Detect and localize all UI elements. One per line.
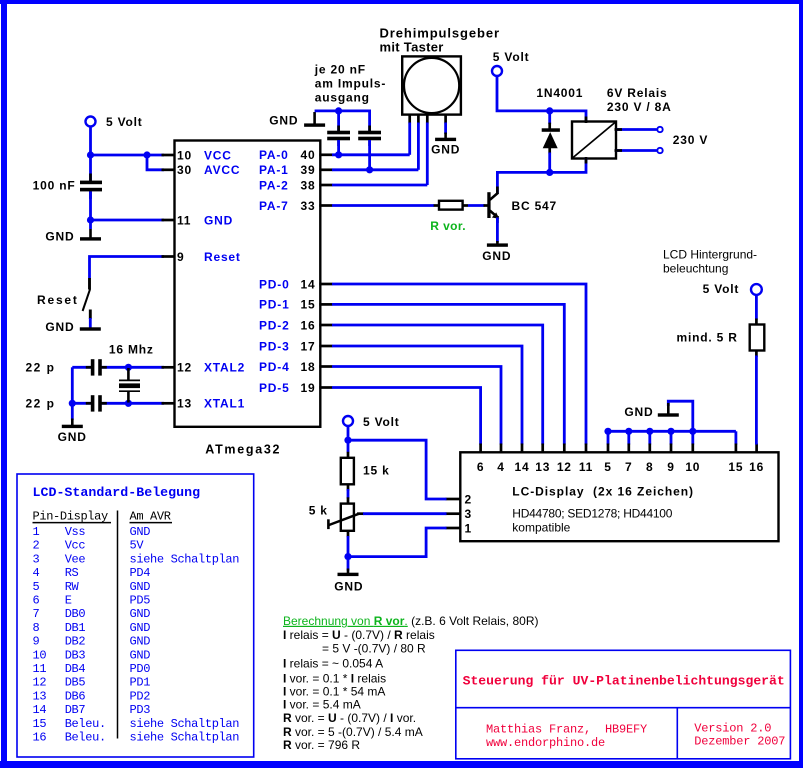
svg-text:10: 10 xyxy=(177,148,192,162)
svg-text:kompatible: kompatible xyxy=(512,521,570,535)
svg-text:12: 12 xyxy=(557,460,572,474)
pin stubs relay K1 xyxy=(586,117,622,164)
label Drehimpulsgeber mit Taster xyxy=(380,25,500,54)
svg-text:beleuchtung: beleuchtung xyxy=(663,262,728,276)
ground below encoder xyxy=(435,133,456,142)
wire relay contact lower xyxy=(616,149,657,152)
wire divider bottom to LCD pin 1 xyxy=(348,528,447,557)
svg-text:38: 38 xyxy=(301,178,316,192)
note calculation lines xyxy=(283,628,435,752)
wire PD-3 to LCD pin 14 xyxy=(332,346,522,445)
svg-text:4: 4 xyxy=(497,460,504,474)
wire PA-7 to base resistor xyxy=(332,204,434,207)
svg-text:15: 15 xyxy=(728,460,743,474)
svg-text:GND: GND xyxy=(130,525,151,539)
wire relay contact upper xyxy=(616,128,657,131)
label 22 p (C2) xyxy=(25,361,55,375)
svg-text:30: 30 xyxy=(177,163,192,177)
svg-text:Steuerung für UV-Platinenbelic: Steuerung für UV-Platinenbelichtungsgerä… xyxy=(463,674,785,689)
label BC 547 xyxy=(512,199,558,213)
5 Volt supply terminal (backlight) xyxy=(751,284,762,295)
svg-text:I vor. = 0.1 * 54 mA: I vor. = 0.1 * 54 mA xyxy=(283,685,385,699)
5 Volt supply terminal (VCC) xyxy=(86,117,96,127)
wire R4 to LCD pin 16 xyxy=(755,356,758,445)
node XTAL1 junction dot xyxy=(125,400,132,407)
svg-text:Berechnung von R vor. (z.B. 6: Berechnung von R vor. (z.B. 6 Volt Relai… xyxy=(283,614,538,628)
table rows pin assignments xyxy=(33,525,240,745)
svg-text:5 Volt: 5 Volt xyxy=(703,282,740,296)
wire 5V to R4 xyxy=(755,295,758,320)
label 5 Volt xyxy=(493,50,530,64)
svg-text:siehe Schaltplan: siehe Schaltplan xyxy=(130,731,240,745)
svg-text:RW: RW xyxy=(65,580,80,594)
wire PD-4 to LCD pin 4 xyxy=(332,367,501,445)
svg-text:PD-5: PD-5 xyxy=(259,381,290,395)
wire PA-0 row xyxy=(332,153,410,156)
op-amp U1 ATmega32 body xyxy=(175,141,321,427)
wire PD-5 to LCD pin 6 xyxy=(332,388,481,445)
svg-text:PD0: PD0 xyxy=(130,662,151,676)
label 15 k xyxy=(363,463,390,477)
node XTAL2 junction dot xyxy=(125,364,132,371)
svg-text:PD-0: PD-0 xyxy=(259,277,290,291)
svg-text:BC 547: BC 547 xyxy=(512,199,558,213)
node AVCC branch dot xyxy=(143,151,150,158)
svg-text:13: 13 xyxy=(535,460,550,474)
svg-text:GND: GND xyxy=(130,635,151,649)
label Steuerung fuer UV-Platinenbelichtungsgeraet xyxy=(463,674,785,689)
label GND xyxy=(45,320,74,334)
wire LCD ground bus xyxy=(608,430,736,433)
label 22 p (C3) xyxy=(25,397,55,411)
svg-text:3: 3 xyxy=(465,507,472,521)
terminal 230V lower xyxy=(657,148,662,153)
pin labels U1 right xyxy=(259,148,315,395)
svg-text:Dezember 2007: Dezember 2007 xyxy=(694,735,785,749)
svg-text:DB1: DB1 xyxy=(65,621,86,635)
wire VCC node to pin 10 xyxy=(91,154,165,157)
svg-text:15 k: 15 k xyxy=(363,463,390,477)
svg-text:33: 33 xyxy=(301,199,316,213)
svg-text:7: 7 xyxy=(33,607,40,621)
svg-text:Vcc: Vcc xyxy=(65,539,86,553)
wire divider top to LCD pin 2 xyxy=(348,440,447,499)
ground below reset switch xyxy=(80,327,101,330)
wire XTAL2 row xyxy=(72,366,164,369)
label 5 Volt xyxy=(106,115,143,129)
svg-text:siehe Schaltplan: siehe Schaltplan xyxy=(130,717,240,731)
label 5 Volt xyxy=(363,415,400,429)
capacitor C4 20 nF xyxy=(327,126,350,147)
svg-text:10: 10 xyxy=(685,460,700,474)
svg-text:PD4: PD4 xyxy=(130,566,151,580)
svg-text:PA-2: PA-2 xyxy=(259,178,289,192)
svg-text:mind. 5 R: mind. 5 R xyxy=(677,331,738,345)
svg-text:I relais = ~ 0.054 A: I relais = ~ 0.054 A xyxy=(283,656,383,670)
label Matthias Franz, HB9EFY www.endorphino.de xyxy=(486,722,647,750)
node ground bus dot pin xyxy=(646,428,653,435)
note title block frame xyxy=(456,650,791,759)
label GND xyxy=(431,142,460,156)
node diode top junction dot xyxy=(546,107,553,114)
label 5 Volt xyxy=(703,282,740,296)
svg-text:5 Volt: 5 Volt xyxy=(493,50,530,64)
wires ground bus down to LCD pins 5 7 8 9 10 15 xyxy=(608,431,736,444)
svg-text:12: 12 xyxy=(177,361,192,375)
svg-text:Beleu.: Beleu. xyxy=(65,731,106,745)
svg-text:8: 8 xyxy=(646,460,653,474)
svg-text:PD3: PD3 xyxy=(130,703,151,717)
svg-text:Am AVR: Am AVR xyxy=(130,510,171,524)
svg-text:GND: GND xyxy=(204,213,233,227)
label GND xyxy=(45,230,74,244)
svg-text:15: 15 xyxy=(301,298,316,312)
wire PA-1 row xyxy=(332,168,418,171)
svg-text:AVCC: AVCC xyxy=(204,163,240,177)
wire 5V to relay top xyxy=(497,76,586,123)
capacitor C5 20 nF xyxy=(358,126,381,147)
pin stubs LCD left xyxy=(446,499,462,528)
pin labels LCD left 2 3 1 xyxy=(465,493,472,536)
pin stubs left side U1 xyxy=(162,155,176,403)
capacitor C3 22p xyxy=(86,395,107,411)
ground below Q1 xyxy=(487,241,508,247)
wire C5 to PA-1 row xyxy=(368,140,371,170)
svg-text:PA-7: PA-7 xyxy=(259,199,289,213)
svg-text:1N4001: 1N4001 xyxy=(536,86,583,100)
svg-text:GND: GND xyxy=(624,405,653,419)
svg-text:VCC: VCC xyxy=(204,148,232,162)
svg-text:GND: GND xyxy=(130,580,151,594)
svg-text:XTAL2: XTAL2 xyxy=(204,361,245,375)
label je 20 nF am Impuls-ausgang xyxy=(314,62,386,104)
svg-text:GND: GND xyxy=(45,320,74,334)
svg-text:39: 39 xyxy=(301,163,316,177)
svg-text:4: 4 xyxy=(33,566,40,580)
wire GND node to pin 11 xyxy=(91,219,165,222)
capacitor C1 100 nF xyxy=(80,174,102,199)
potentiometer R3 5 k xyxy=(328,497,359,537)
svg-text:Drehimpulsgeber: Drehimpulsgeber xyxy=(380,25,500,40)
switch S1 Reset xyxy=(83,278,91,328)
svg-text:PD2: PD2 xyxy=(130,689,151,703)
svg-text:I vor. = 5.4 mA: I vor. = 5.4 mA xyxy=(283,698,361,712)
svg-text:ausgang: ausgang xyxy=(315,90,370,104)
label LC-Display (2x 16 Zeichen) xyxy=(512,485,694,499)
svg-text:5: 5 xyxy=(604,460,611,474)
svg-text:DB3: DB3 xyxy=(65,648,86,662)
svg-text:2: 2 xyxy=(33,539,40,553)
wire reset pin 9 xyxy=(90,257,165,279)
wire PA-2 row xyxy=(332,184,427,187)
svg-text:11: 11 xyxy=(579,460,593,474)
svg-text:Reset: Reset xyxy=(204,250,241,264)
svg-text:PD-1: PD-1 xyxy=(259,298,290,312)
svg-text:PA-0: PA-0 xyxy=(259,148,289,162)
svg-text:Pin-Display: Pin-Display xyxy=(33,510,109,524)
wire top bus GND to caps xyxy=(315,111,370,132)
svg-text:Reset: Reset xyxy=(37,293,79,307)
svg-text:PD-2: PD-2 xyxy=(259,318,290,332)
svg-text:230 V: 230 V xyxy=(673,133,708,147)
svg-text:Vss: Vss xyxy=(65,525,86,539)
node PA-1 junction dot xyxy=(366,166,373,173)
wire encoder taster pin to ground xyxy=(444,123,447,135)
svg-text:GND: GND xyxy=(482,249,511,263)
svg-text:9: 9 xyxy=(33,635,40,649)
svg-text:16: 16 xyxy=(33,731,47,745)
svg-text:9: 9 xyxy=(667,460,674,474)
label GND xyxy=(624,405,653,419)
svg-text:14: 14 xyxy=(301,277,316,291)
svg-text:6: 6 xyxy=(33,594,40,608)
note LCD-Standard-Belegung table box xyxy=(17,474,254,757)
transistor Q1 BC 547 xyxy=(487,187,499,224)
node ground bus dot pin xyxy=(604,428,611,435)
note Berechnung von R vor. heading xyxy=(283,614,538,628)
svg-text:LCD-Standard-Belegung: LCD-Standard-Belegung xyxy=(33,485,201,500)
svg-text:19: 19 xyxy=(301,381,316,395)
svg-text:mit Taster: mit Taster xyxy=(380,39,444,54)
ground below C1 xyxy=(80,229,101,241)
wire PD-0 to LCD pin 11 xyxy=(332,284,586,445)
svg-text:5 Volt: 5 Volt xyxy=(106,115,143,129)
svg-text:5V: 5V xyxy=(130,539,145,553)
wire PD-1 to LCD pin 12 xyxy=(332,304,564,444)
wire ground bus riser to GND xyxy=(668,401,693,431)
svg-text:18: 18 xyxy=(301,360,316,374)
pin stubs encoder xyxy=(410,115,446,124)
svg-text:14: 14 xyxy=(515,460,530,474)
svg-text:12: 12 xyxy=(33,676,47,690)
svg-text:6: 6 xyxy=(477,460,484,474)
ground symbol LCD bus xyxy=(658,403,679,417)
ground left of filter caps xyxy=(304,112,325,127)
node PA-0 junction dot xyxy=(335,151,342,158)
node ground bus dot pin xyxy=(689,428,696,435)
pin stubs LCD top data pins xyxy=(481,444,586,454)
wire wiper to LCD pin 3 xyxy=(357,512,447,515)
label ATmega32 xyxy=(205,443,281,457)
svg-text:2: 2 xyxy=(465,493,472,507)
node diode bottom junction dot xyxy=(546,169,553,176)
svg-text:230 V / 8A: 230 V / 8A xyxy=(607,100,672,114)
svg-text:am Impuls-: am Impuls- xyxy=(315,77,386,91)
label GND xyxy=(58,430,87,444)
crystal X1 16 MHz xyxy=(119,368,140,403)
svg-text:7: 7 xyxy=(625,460,632,474)
table column separator xyxy=(117,511,119,739)
table header Pin-Display | Am AVR xyxy=(33,510,173,524)
svg-text:DB7: DB7 xyxy=(65,703,86,717)
svg-text:DB0: DB0 xyxy=(65,607,86,621)
svg-text:11: 11 xyxy=(177,213,191,227)
label R vor. (green) xyxy=(430,219,466,233)
svg-text:1: 1 xyxy=(465,521,472,535)
svg-text:16: 16 xyxy=(301,318,316,332)
svg-text:ATmega32: ATmega32 xyxy=(205,443,281,457)
resistor R1 (R vor.) xyxy=(434,201,468,210)
svg-text:GND: GND xyxy=(130,621,151,635)
node divider top junction dot xyxy=(344,437,351,444)
svg-text:LCD Hintergrund-: LCD Hintergrund- xyxy=(663,248,757,262)
wire pot bottom to GND node xyxy=(347,536,350,571)
svg-text:13: 13 xyxy=(177,397,192,411)
svg-text:R vor. = 5 -(0.7V) / 5.4 mA: R vor. = 5 -(0.7V) / 5.4 mA xyxy=(283,725,423,739)
diode D1 1N4001 xyxy=(542,111,560,172)
svg-text:8: 8 xyxy=(33,621,40,635)
svg-text:DB2: DB2 xyxy=(65,635,86,649)
svg-text:GND: GND xyxy=(45,230,74,244)
label 5 k xyxy=(309,504,328,518)
wire between R2 and potentiometer xyxy=(347,489,350,499)
node GND-pin11 junction dot xyxy=(87,216,94,223)
label Version 2.0 Dezember 2007 xyxy=(694,721,785,748)
label 1N4001 xyxy=(536,86,583,100)
svg-text:DB6: DB6 xyxy=(65,689,86,703)
label 230 V (red) xyxy=(673,133,708,147)
svg-text:15: 15 xyxy=(33,717,47,731)
wire AVCC branch to pin 30 xyxy=(147,155,164,170)
label LCD-Standard-Belegung xyxy=(33,485,201,500)
wire bus down to C4 xyxy=(337,111,340,132)
svg-text:Beleu.: Beleu. xyxy=(65,717,106,731)
svg-text:GND: GND xyxy=(431,142,460,156)
svg-text:22 p: 22 p xyxy=(25,397,55,411)
label 16 Mhz xyxy=(109,343,154,357)
svg-text:Version 2.0: Version 2.0 xyxy=(694,721,771,735)
wire 5V terminal down to VCC node xyxy=(89,127,92,182)
svg-text:3: 3 xyxy=(33,552,40,566)
svg-text:17: 17 xyxy=(301,339,316,353)
rotary encoder S2 body xyxy=(402,56,461,114)
svg-text:13: 13 xyxy=(33,689,47,703)
svg-text:GND: GND xyxy=(334,580,363,594)
label Reset xyxy=(37,293,79,307)
node ground bus dot pin xyxy=(667,428,674,435)
svg-text:LC-Display (2x 16 Zeichen): LC-Display (2x 16 Zeichen) xyxy=(512,485,694,499)
pin number labels LCD top xyxy=(477,460,764,474)
wire 5V down to divider xyxy=(347,426,350,453)
label LCD Hintergrund-beleuchtung xyxy=(663,248,757,276)
svg-text:I vor. = 0.1 * I relais: I vor. = 0.1 * I relais xyxy=(283,671,386,685)
wire left bus joining C2 C3 to ground xyxy=(71,367,74,420)
capacitor C2 22p xyxy=(86,359,107,375)
label GND xyxy=(269,113,298,127)
wire C4 to PA-0 row xyxy=(337,140,340,155)
svg-text:DB5: DB5 xyxy=(65,676,86,690)
svg-text:GND: GND xyxy=(58,430,87,444)
svg-text:GND: GND xyxy=(130,607,151,621)
svg-text:11: 11 xyxy=(33,662,47,676)
svg-text:16 Mhz: 16 Mhz xyxy=(109,343,154,357)
terminal 230V upper xyxy=(657,127,662,132)
svg-text:XTAL1: XTAL1 xyxy=(204,397,245,411)
svg-text:DB4: DB4 xyxy=(65,662,86,676)
svg-text:1: 1 xyxy=(33,525,40,539)
wire PD-2 to LCD pin 13 xyxy=(332,325,543,445)
wire encoder pin C to PA-2 xyxy=(426,123,429,186)
wire base resistor to Q1 base xyxy=(468,204,488,207)
svg-text:40: 40 xyxy=(301,148,316,162)
svg-text:Vee: Vee xyxy=(65,552,86,566)
label mind. 5 R xyxy=(677,331,738,345)
svg-text:5 Volt: 5 Volt xyxy=(363,415,400,429)
svg-text:I relais = U - (0.7V) / R rela: I relais = U - (0.7V) / R relais xyxy=(283,628,435,642)
svg-text:6V Relais: 6V Relais xyxy=(607,86,668,100)
label HD44780; SED1278; HD44100 kompatible xyxy=(512,507,672,535)
svg-text:PD-3: PD-3 xyxy=(259,339,290,353)
wire encoder pin A to PA-0 xyxy=(408,123,411,155)
svg-text:R vor. = U - (0.7V) / I vor.: R vor. = U - (0.7V) / I vor. xyxy=(283,711,416,725)
wire encoder pin B to PA-1 xyxy=(417,123,420,170)
LCD module body xyxy=(460,452,778,541)
svg-text:16: 16 xyxy=(749,460,764,474)
resistor R4 mind. 5 R xyxy=(750,319,765,358)
svg-text:www.endorphino.de: www.endorphino.de xyxy=(486,736,605,750)
node VCC junction dot xyxy=(87,151,94,158)
wire XTAL1 row xyxy=(72,402,164,405)
5 Volt supply terminal (relay) xyxy=(492,66,502,76)
svg-text:PD-4: PD-4 xyxy=(259,360,290,374)
svg-text:22 p: 22 p xyxy=(25,361,55,375)
label 6V Relais 230 V / 8A xyxy=(607,86,672,114)
svg-text:HD44780; SED1278; HD44100: HD44780; SED1278; HD44100 xyxy=(512,507,672,521)
svg-text:5: 5 xyxy=(33,580,40,594)
svg-text:14: 14 xyxy=(33,703,47,717)
svg-text:R vor.: R vor. xyxy=(430,219,466,233)
svg-text:PA-1: PA-1 xyxy=(259,163,289,177)
ground below divider xyxy=(338,569,359,577)
relay K1 body xyxy=(572,122,616,159)
svg-text:PD1: PD1 xyxy=(130,676,151,690)
svg-text:siehe Schaltplan: siehe Schaltplan xyxy=(130,552,240,566)
pin labels U1 left xyxy=(177,148,245,410)
pin stubs LCD top right xyxy=(608,444,757,454)
node cap bus junction dot xyxy=(335,107,342,114)
wire relay bottom to collector xyxy=(497,158,586,194)
svg-text:5 k: 5 k xyxy=(309,504,328,518)
svg-text:PD5: PD5 xyxy=(130,594,151,608)
svg-text:E: E xyxy=(65,594,72,608)
node ground bus dot pin xyxy=(625,428,632,435)
svg-text:GND: GND xyxy=(130,648,151,662)
ground below crystal caps xyxy=(62,419,83,429)
wire C1 bottom to GND node xyxy=(89,191,92,229)
svg-text:10: 10 xyxy=(33,648,47,662)
pin stubs right side U1 xyxy=(319,155,332,388)
label GND xyxy=(334,580,363,594)
label 100 nF xyxy=(33,179,76,193)
svg-text:100 nF: 100 nF xyxy=(33,179,76,193)
5 Volt supply terminal (contrast) xyxy=(343,416,353,426)
svg-text:Matthias Franz, HB9EFY: Matthias Franz, HB9EFY xyxy=(486,722,647,736)
resistor R2 15 k xyxy=(341,452,354,491)
svg-text:9: 9 xyxy=(177,250,184,264)
svg-text:RS: RS xyxy=(65,566,79,580)
wire emitter to ground xyxy=(496,218,499,243)
svg-text:GND: GND xyxy=(269,113,298,127)
node C3 junction dot xyxy=(69,400,76,407)
svg-text:R vor. = 796 R: R vor. = 796 R xyxy=(283,738,360,752)
svg-text:= 5 V -(0.7V) / 80 R: = 5 V -(0.7V) / 80 R xyxy=(322,641,426,655)
node divider bottom junction dot xyxy=(344,553,351,560)
svg-text:je 20 nF: je 20 nF xyxy=(314,62,366,76)
label GND xyxy=(482,249,511,263)
